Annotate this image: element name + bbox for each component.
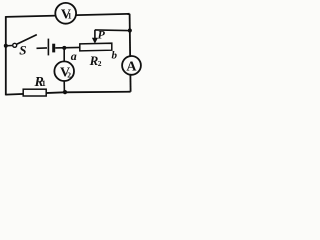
ammeter A	[122, 56, 141, 75]
label S	[19, 43, 26, 58]
svg-text:1: 1	[42, 79, 46, 88]
label P	[98, 27, 106, 41]
junction dot bottom	[63, 90, 67, 94]
resistor R2 (rheostat box)	[80, 43, 112, 51]
svg-text:1: 1	[68, 12, 72, 21]
wire switch to battery	[37, 47, 48, 49]
svg-text:2: 2	[67, 70, 71, 79]
node junction left (switch branch)	[4, 44, 8, 48]
wire battery to R2	[55, 46, 80, 49]
svg-text:2: 2	[98, 59, 102, 68]
svg-text:A: A	[126, 60, 137, 75]
wire left	[5, 16, 7, 95]
node a junction dot	[62, 46, 66, 50]
voltmeter V2	[54, 61, 74, 81]
label R1	[34, 75, 46, 90]
wire slider to right wire	[95, 29, 129, 32]
svg-text:a: a	[71, 49, 77, 63]
label R2	[89, 53, 102, 68]
wire to switch	[6, 45, 12, 47]
resistor R1	[23, 89, 46, 96]
svg-text:b: b	[111, 50, 117, 62]
label b	[111, 50, 117, 62]
switch S	[13, 35, 37, 48]
wire V2 down to bottom wire	[63, 81, 65, 93]
wire bottom	[6, 92, 131, 95]
slider P arrow	[92, 30, 98, 44]
svg-text:P: P	[98, 27, 106, 41]
battery cell	[48, 39, 53, 56]
wire right	[130, 14, 131, 92]
wire top	[6, 14, 130, 17]
label a	[71, 49, 77, 63]
junction dot right	[128, 28, 132, 32]
wire node a down to V2	[63, 48, 65, 62]
voltmeter V1	[55, 3, 76, 24]
svg-text:S: S	[19, 43, 26, 58]
